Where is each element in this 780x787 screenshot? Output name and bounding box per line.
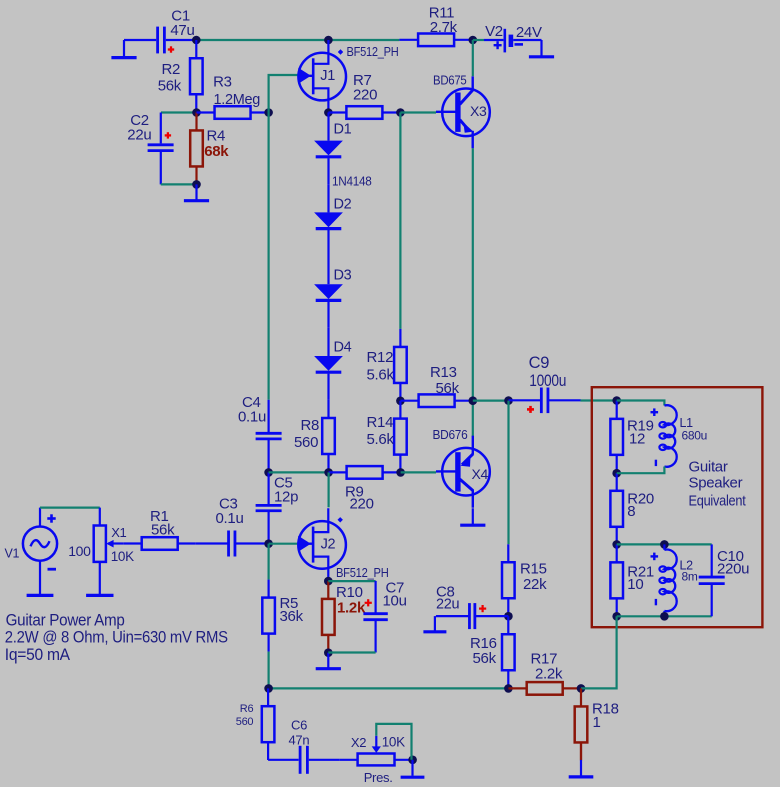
svg-text:J2: J2 (321, 537, 336, 553)
svg-text:R15: R15 (520, 560, 547, 577)
svg-text:56k: 56k (473, 650, 497, 667)
svg-text:22u: 22u (127, 127, 151, 144)
svg-text:V2: V2 (485, 23, 503, 40)
svg-text:D4: D4 (334, 340, 352, 356)
svg-text:Speaker: Speaker (689, 475, 743, 492)
svg-text:X4: X4 (472, 466, 489, 482)
svg-text:BD675: BD675 (433, 74, 467, 88)
svg-text:56k: 56k (436, 380, 460, 397)
svg-text:56k: 56k (158, 78, 182, 95)
svg-text:2.7k: 2.7k (430, 19, 458, 36)
svg-text:J1: J1 (320, 68, 335, 84)
svg-text:R2: R2 (162, 61, 181, 78)
svg-text:2.2k: 2.2k (535, 666, 563, 683)
svg-text:5.6k: 5.6k (367, 367, 395, 384)
svg-text:220: 220 (353, 86, 377, 103)
svg-text:Equivalent: Equivalent (689, 492, 747, 509)
svg-text:D2: D2 (334, 197, 352, 213)
svg-text:5.6k: 5.6k (367, 431, 395, 448)
svg-text:X2: X2 (351, 735, 366, 750)
svg-text:56k: 56k (151, 521, 175, 538)
svg-text:0.1u: 0.1u (238, 409, 266, 426)
svg-text:12: 12 (629, 431, 645, 448)
svg-text:Guitar: Guitar (689, 459, 728, 476)
svg-text:220u: 220u (717, 560, 749, 577)
svg-text:R10: R10 (336, 584, 363, 601)
svg-text:C9: C9 (529, 354, 550, 372)
svg-text:47n: 47n (289, 733, 310, 748)
svg-text:10K: 10K (111, 549, 134, 564)
svg-text:Pres.: Pres. (364, 770, 393, 785)
svg-text:Guitar Power Amp: Guitar Power Amp (6, 611, 125, 630)
svg-text:D3: D3 (334, 268, 352, 284)
svg-text:1.2k: 1.2k (337, 599, 366, 616)
svg-text:X3: X3 (470, 103, 487, 119)
svg-text:1.2Meg: 1.2Meg (214, 91, 261, 108)
svg-text:36k: 36k (280, 608, 304, 625)
svg-text:100: 100 (68, 543, 91, 559)
svg-text:1N4148: 1N4148 (332, 174, 372, 188)
svg-text:R13: R13 (430, 364, 457, 381)
svg-text:R14: R14 (367, 414, 394, 431)
svg-text:560: 560 (236, 716, 254, 728)
svg-text:BF512_PH: BF512_PH (336, 566, 389, 580)
svg-text:22u: 22u (436, 596, 460, 612)
svg-text:47u: 47u (170, 22, 194, 39)
svg-text:1: 1 (593, 714, 601, 731)
svg-text:22k: 22k (523, 576, 547, 593)
svg-text:R6: R6 (240, 703, 254, 715)
svg-text:C6: C6 (291, 718, 307, 733)
svg-text:0.1u: 0.1u (216, 510, 244, 527)
svg-text:BD676: BD676 (433, 428, 468, 442)
svg-text:Iq=50 mA: Iq=50 mA (5, 645, 71, 664)
svg-text:X1: X1 (111, 525, 126, 540)
svg-text:220: 220 (350, 495, 374, 512)
svg-text:24V: 24V (516, 24, 542, 41)
svg-text:D1: D1 (334, 122, 352, 138)
svg-text:R8: R8 (301, 417, 320, 434)
svg-text:12p: 12p (274, 489, 298, 506)
svg-text:10: 10 (627, 576, 643, 593)
svg-text:R3: R3 (213, 73, 232, 90)
svg-text:560: 560 (294, 434, 318, 451)
svg-text:R4: R4 (207, 128, 226, 145)
svg-text:10K: 10K (382, 734, 405, 749)
svg-text:8m: 8m (682, 569, 698, 583)
svg-text:R12: R12 (367, 349, 394, 366)
svg-text:68k: 68k (204, 143, 229, 160)
svg-text:10u: 10u (383, 592, 407, 609)
svg-text:8: 8 (627, 503, 635, 520)
svg-text:680u: 680u (682, 429, 708, 443)
svg-text:V1: V1 (5, 547, 20, 561)
svg-text:BF512_PH: BF512_PH (347, 45, 399, 59)
svg-text:1000u: 1000u (529, 372, 566, 390)
